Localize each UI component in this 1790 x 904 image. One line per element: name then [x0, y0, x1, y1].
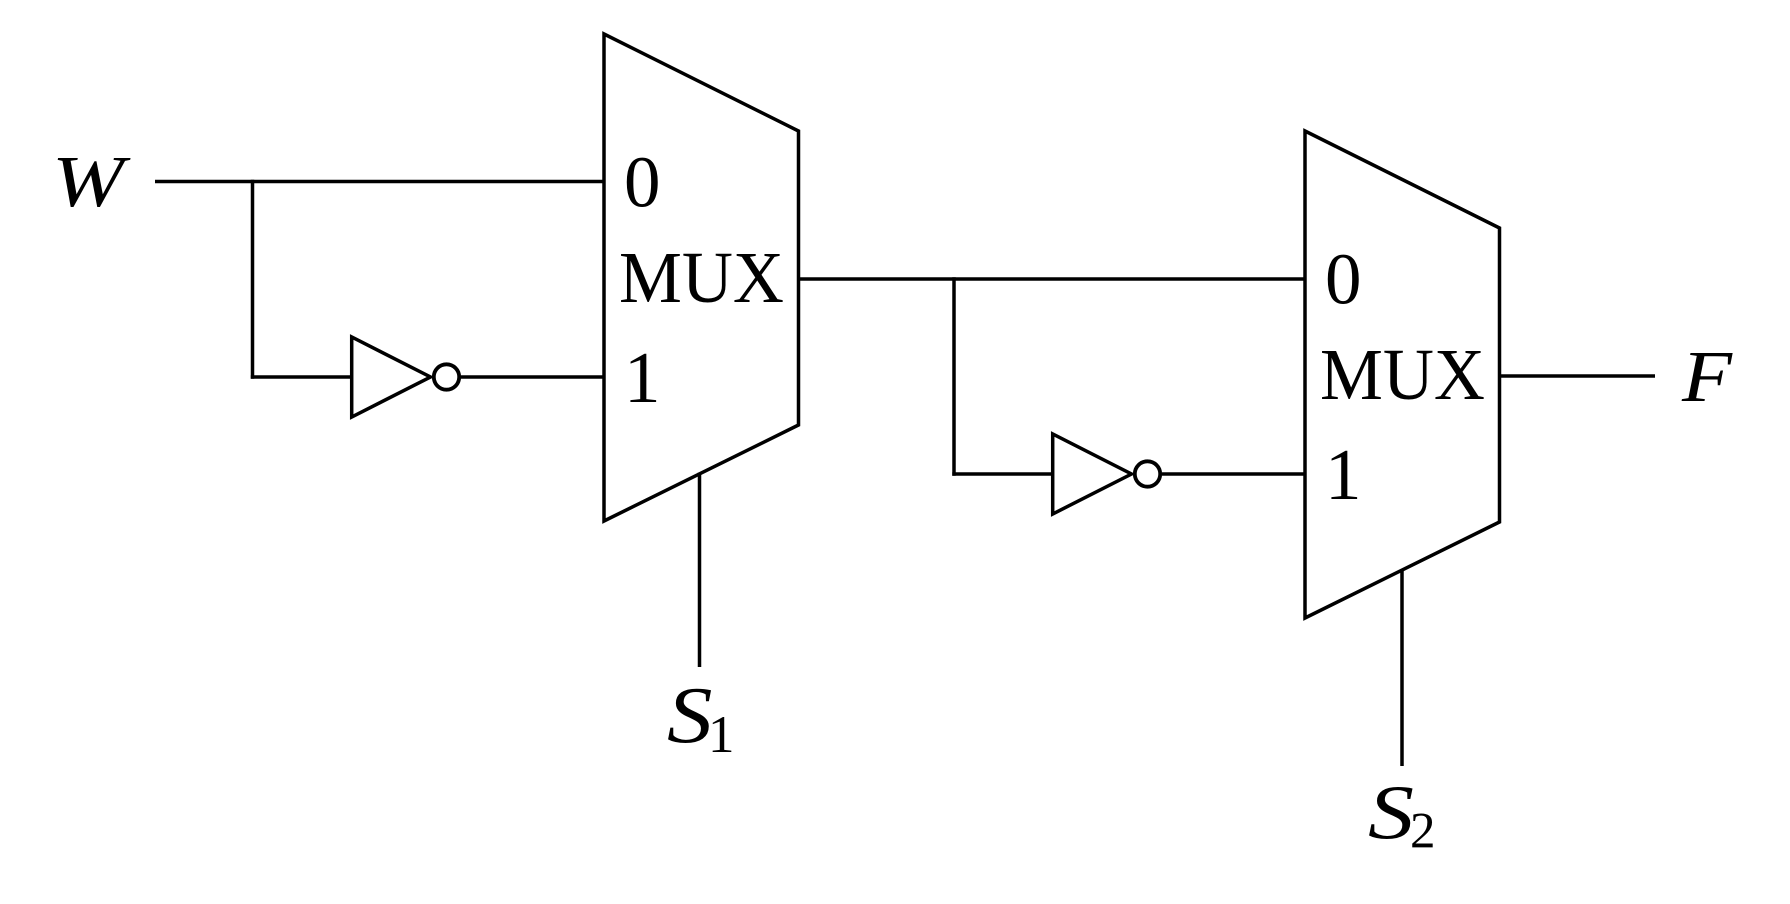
svg-text:S: S — [1368, 769, 1414, 855]
wire MUX2 output to F — [1500, 374, 1656, 378]
wire branch to inverter U1 input — [251, 375, 352, 379]
svg-text:MUX: MUX — [619, 237, 784, 318]
inverter U3 bubble — [1135, 461, 1160, 486]
wire junction branch: vertical drop at x=252.5 — [251, 180, 255, 379]
svg-text:MUX: MUX — [1320, 334, 1485, 415]
svg-text:S: S — [667, 670, 713, 760]
wire branch to inverter U3 input — [952, 472, 1053, 476]
wire inverter U3 output to MUX2 input 1 — [1162, 472, 1306, 476]
wire W to MUX1 input 0 — [155, 180, 605, 184]
svg-text:0: 0 — [624, 142, 661, 223]
wire select S2 — [1400, 570, 1404, 767]
inverter U1 triangle — [352, 337, 431, 417]
mux U2 (MUX1) trapezoid body — [604, 34, 799, 521]
wire select S1 — [698, 473, 702, 668]
inverter U3 triangle — [1053, 434, 1132, 514]
svg-text:W: W — [52, 141, 131, 222]
svg-text:F: F — [1681, 336, 1734, 417]
svg-text:1: 1 — [624, 337, 661, 418]
svg-text:2: 2 — [1410, 804, 1436, 860]
mux U4 (MUX2) trapezoid body — [1305, 131, 1500, 618]
svg-text:1: 1 — [708, 706, 735, 764]
wire MUX1 output to MUX2 input 0 — [799, 277, 1307, 281]
svg-text:0: 0 — [1325, 239, 1362, 320]
inverter U1 bubble — [434, 364, 459, 389]
wire junction branch: vertical drop at x=954 — [952, 277, 956, 475]
wire inverter U1 output to MUX1 input 1 — [461, 375, 605, 379]
svg-text:1: 1 — [1325, 434, 1362, 515]
